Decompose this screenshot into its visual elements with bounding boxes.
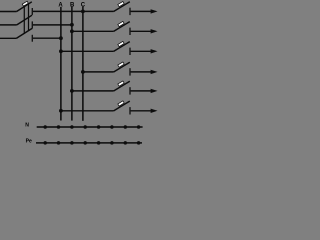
svg-text:N: N <box>25 123 29 129</box>
branch switch F5 blade <box>114 81 130 91</box>
branch switch F5 fixed contact <box>129 87 131 94</box>
branch switch F3 blade <box>114 42 130 52</box>
wire L1 input <box>0 11 17 13</box>
arrow row 4 <box>151 70 158 74</box>
main switch Q1 fixed contact pole 1 <box>31 8 33 15</box>
main switch Q1 blade pole 2 <box>17 15 32 25</box>
junction dot row 6 on A <box>59 109 63 113</box>
svg-text:C: C <box>81 3 86 9</box>
wire row 3 out <box>131 50 153 52</box>
wire row 4 out <box>131 71 153 73</box>
neutral bus N <box>37 126 143 128</box>
wire row 6 out <box>131 110 153 112</box>
main switch Q1 blade pole 1 <box>17 2 32 12</box>
arrow row 3 <box>151 49 158 53</box>
branch switch F4 fuse <box>118 62 124 67</box>
wire row 6 left <box>61 110 114 112</box>
main switch Q1 fixed contact pole 3 <box>31 35 33 42</box>
junction dot row 5 on B <box>70 89 74 93</box>
wire phase 1 feed / row 1 left <box>33 10 114 12</box>
junction dot bus A feed <box>59 36 63 40</box>
svg-text:B: B <box>70 2 75 8</box>
branch switch F2 blade <box>114 22 130 32</box>
wire row 4 left <box>83 71 114 73</box>
branch switch F6 fuse <box>118 101 124 106</box>
branch switch F1 fixed contact <box>129 8 131 15</box>
main switch Q1 handle <box>22 1 28 6</box>
wire row 2 left <box>72 30 114 32</box>
branch switch F2 fuse <box>118 21 124 26</box>
branch switch F1 blade <box>114 2 130 12</box>
Pe tap dots <box>43 141 140 145</box>
wire row 2 out <box>131 30 153 32</box>
svg-text:A: A <box>58 3 63 9</box>
junction dot row 2 on B <box>70 29 74 33</box>
wire row 5 out <box>131 90 153 92</box>
branch switch F3 fuse <box>118 41 124 46</box>
branch switch F3 fixed contact <box>129 48 131 55</box>
wire phase 2 feed <box>33 24 72 26</box>
arrow row 2 <box>151 29 158 33</box>
junction dot bus B feed <box>70 23 74 27</box>
main switch Q1 linkage bar left <box>23 3 25 33</box>
branch switch F2 fixed contact <box>129 28 131 35</box>
junction dot bus C feed <box>81 10 85 14</box>
arrow row 5 <box>151 89 158 93</box>
wire row 1 out <box>131 10 153 12</box>
main switch Q1 blade pole 3 <box>17 28 33 38</box>
wire phase 3 feed <box>33 37 61 39</box>
main switch Q1 fixed contact pole 2 <box>31 21 33 28</box>
branch switch F4 blade <box>114 62 130 72</box>
branch switch F1 fuse <box>118 2 124 7</box>
main switch Q1 linkage bar right <box>28 3 30 31</box>
junction dot row 4 on C <box>81 70 85 74</box>
branch switch F5 fuse <box>118 81 124 86</box>
bus C vertical <box>82 7 84 121</box>
junction dot row 3 on A <box>59 49 63 53</box>
arrow row 6 <box>151 109 158 113</box>
svg-text:Pe: Pe <box>26 138 32 144</box>
bus B vertical <box>71 7 73 121</box>
wire row 5 left <box>72 90 114 92</box>
wire L2 input <box>0 24 17 26</box>
arrow row 1 <box>151 9 158 13</box>
wire row 3 left <box>61 50 114 52</box>
wire L3 input <box>0 37 17 39</box>
branch switch F6 blade <box>114 101 130 111</box>
branch switch F6 fixed contact <box>129 107 131 114</box>
N tap dots <box>43 125 140 129</box>
earth bus Pe <box>36 142 142 144</box>
branch switch F4 fixed contact <box>129 68 131 75</box>
bus A vertical <box>60 7 62 121</box>
